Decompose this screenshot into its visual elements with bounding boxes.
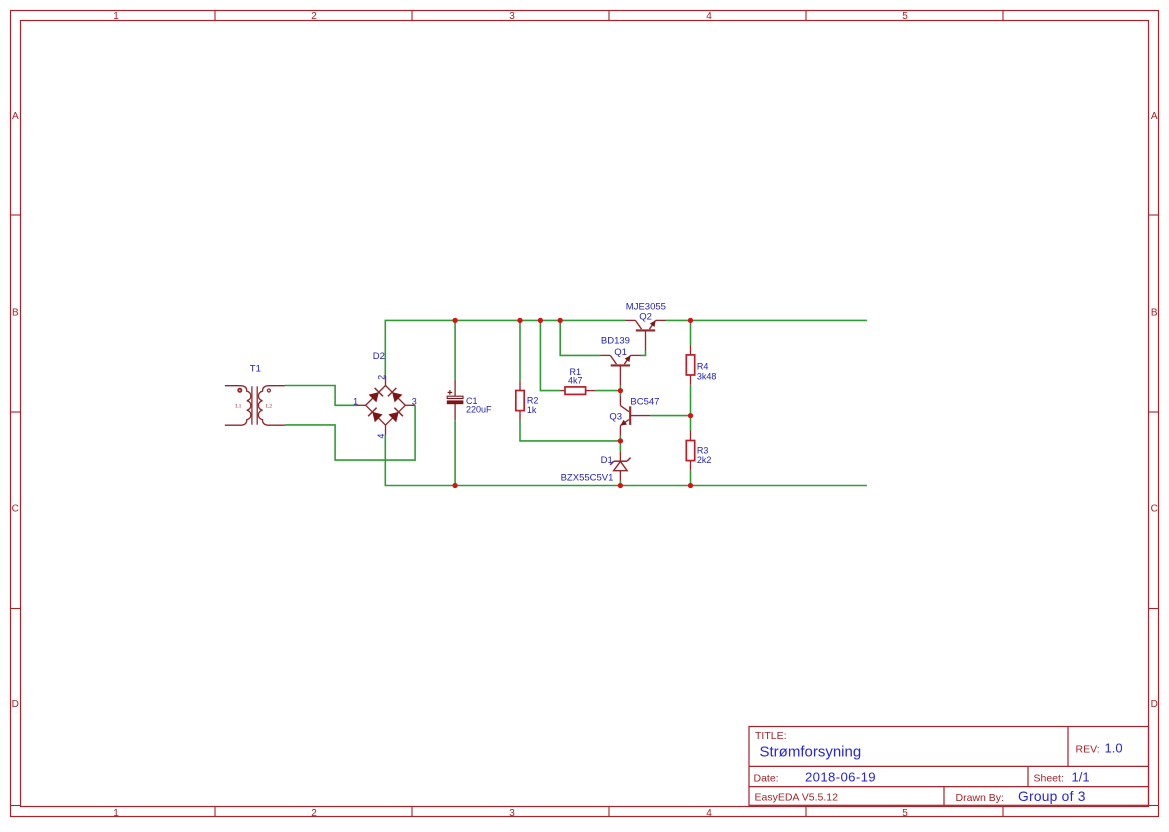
svg-text:D: D — [12, 699, 19, 710]
svg-text:D1: D1 — [601, 455, 613, 466]
svg-text:L1: L1 — [235, 404, 241, 410]
svg-text:REV:: REV: — [1076, 743, 1100, 755]
svg-text:3: 3 — [509, 808, 515, 819]
svg-text:C: C — [12, 504, 19, 515]
svg-text:4k7: 4k7 — [568, 376, 583, 386]
svg-text:BC547: BC547 — [630, 397, 659, 408]
svg-text:C: C — [1151, 504, 1158, 515]
svg-text:D: D — [1151, 699, 1158, 710]
svg-text:2018-06-19: 2018-06-19 — [805, 769, 876, 784]
svg-text:Sheet:: Sheet: — [1034, 772, 1064, 784]
svg-text:T1: T1 — [250, 364, 261, 375]
svg-text:L2: L2 — [266, 404, 272, 410]
svg-text:A: A — [12, 111, 19, 122]
svg-text:Q2: Q2 — [639, 312, 652, 323]
svg-text:2: 2 — [311, 808, 317, 819]
svg-text:3: 3 — [412, 396, 417, 406]
svg-text:BD139: BD139 — [601, 336, 630, 347]
svg-text:5: 5 — [902, 808, 908, 819]
svg-text:Q1: Q1 — [614, 347, 627, 358]
svg-text:1: 1 — [113, 11, 119, 22]
svg-text:Date:: Date: — [754, 772, 779, 784]
svg-text:1/1: 1/1 — [1072, 769, 1090, 784]
svg-text:Strømforsyning: Strømforsyning — [760, 743, 862, 760]
svg-text:4: 4 — [706, 808, 712, 819]
svg-text:1: 1 — [353, 396, 358, 406]
svg-text:A: A — [1151, 111, 1158, 122]
svg-text:R2: R2 — [527, 396, 539, 406]
svg-text:5: 5 — [902, 11, 908, 22]
svg-text:2k2: 2k2 — [697, 455, 712, 465]
svg-text:220uF: 220uF — [466, 405, 492, 415]
svg-text:EasyEDA V5.5.12: EasyEDA V5.5.12 — [755, 792, 839, 804]
svg-text:TITLE:: TITLE: — [755, 730, 787, 742]
svg-text:3k48: 3k48 — [697, 372, 717, 382]
svg-text:R3: R3 — [697, 445, 709, 455]
svg-text:BZX55C5V1: BZX55C5V1 — [561, 472, 614, 483]
svg-text:Group of 3: Group of 3 — [1018, 789, 1086, 804]
svg-text:4: 4 — [706, 11, 712, 22]
svg-text:1k: 1k — [527, 405, 537, 415]
svg-text:4: 4 — [376, 434, 386, 439]
svg-text:3: 3 — [509, 11, 515, 22]
svg-text:1: 1 — [113, 808, 119, 819]
svg-text:B: B — [1151, 307, 1158, 318]
svg-text:D2: D2 — [373, 351, 385, 362]
svg-text:2: 2 — [376, 375, 386, 380]
svg-text:B: B — [12, 307, 19, 318]
svg-text:Drawn By:: Drawn By: — [956, 792, 1004, 804]
svg-text:1.0: 1.0 — [1105, 741, 1123, 756]
svg-text:R4: R4 — [697, 362, 709, 372]
svg-text:Q3: Q3 — [609, 411, 622, 422]
svg-text:2: 2 — [311, 11, 317, 22]
